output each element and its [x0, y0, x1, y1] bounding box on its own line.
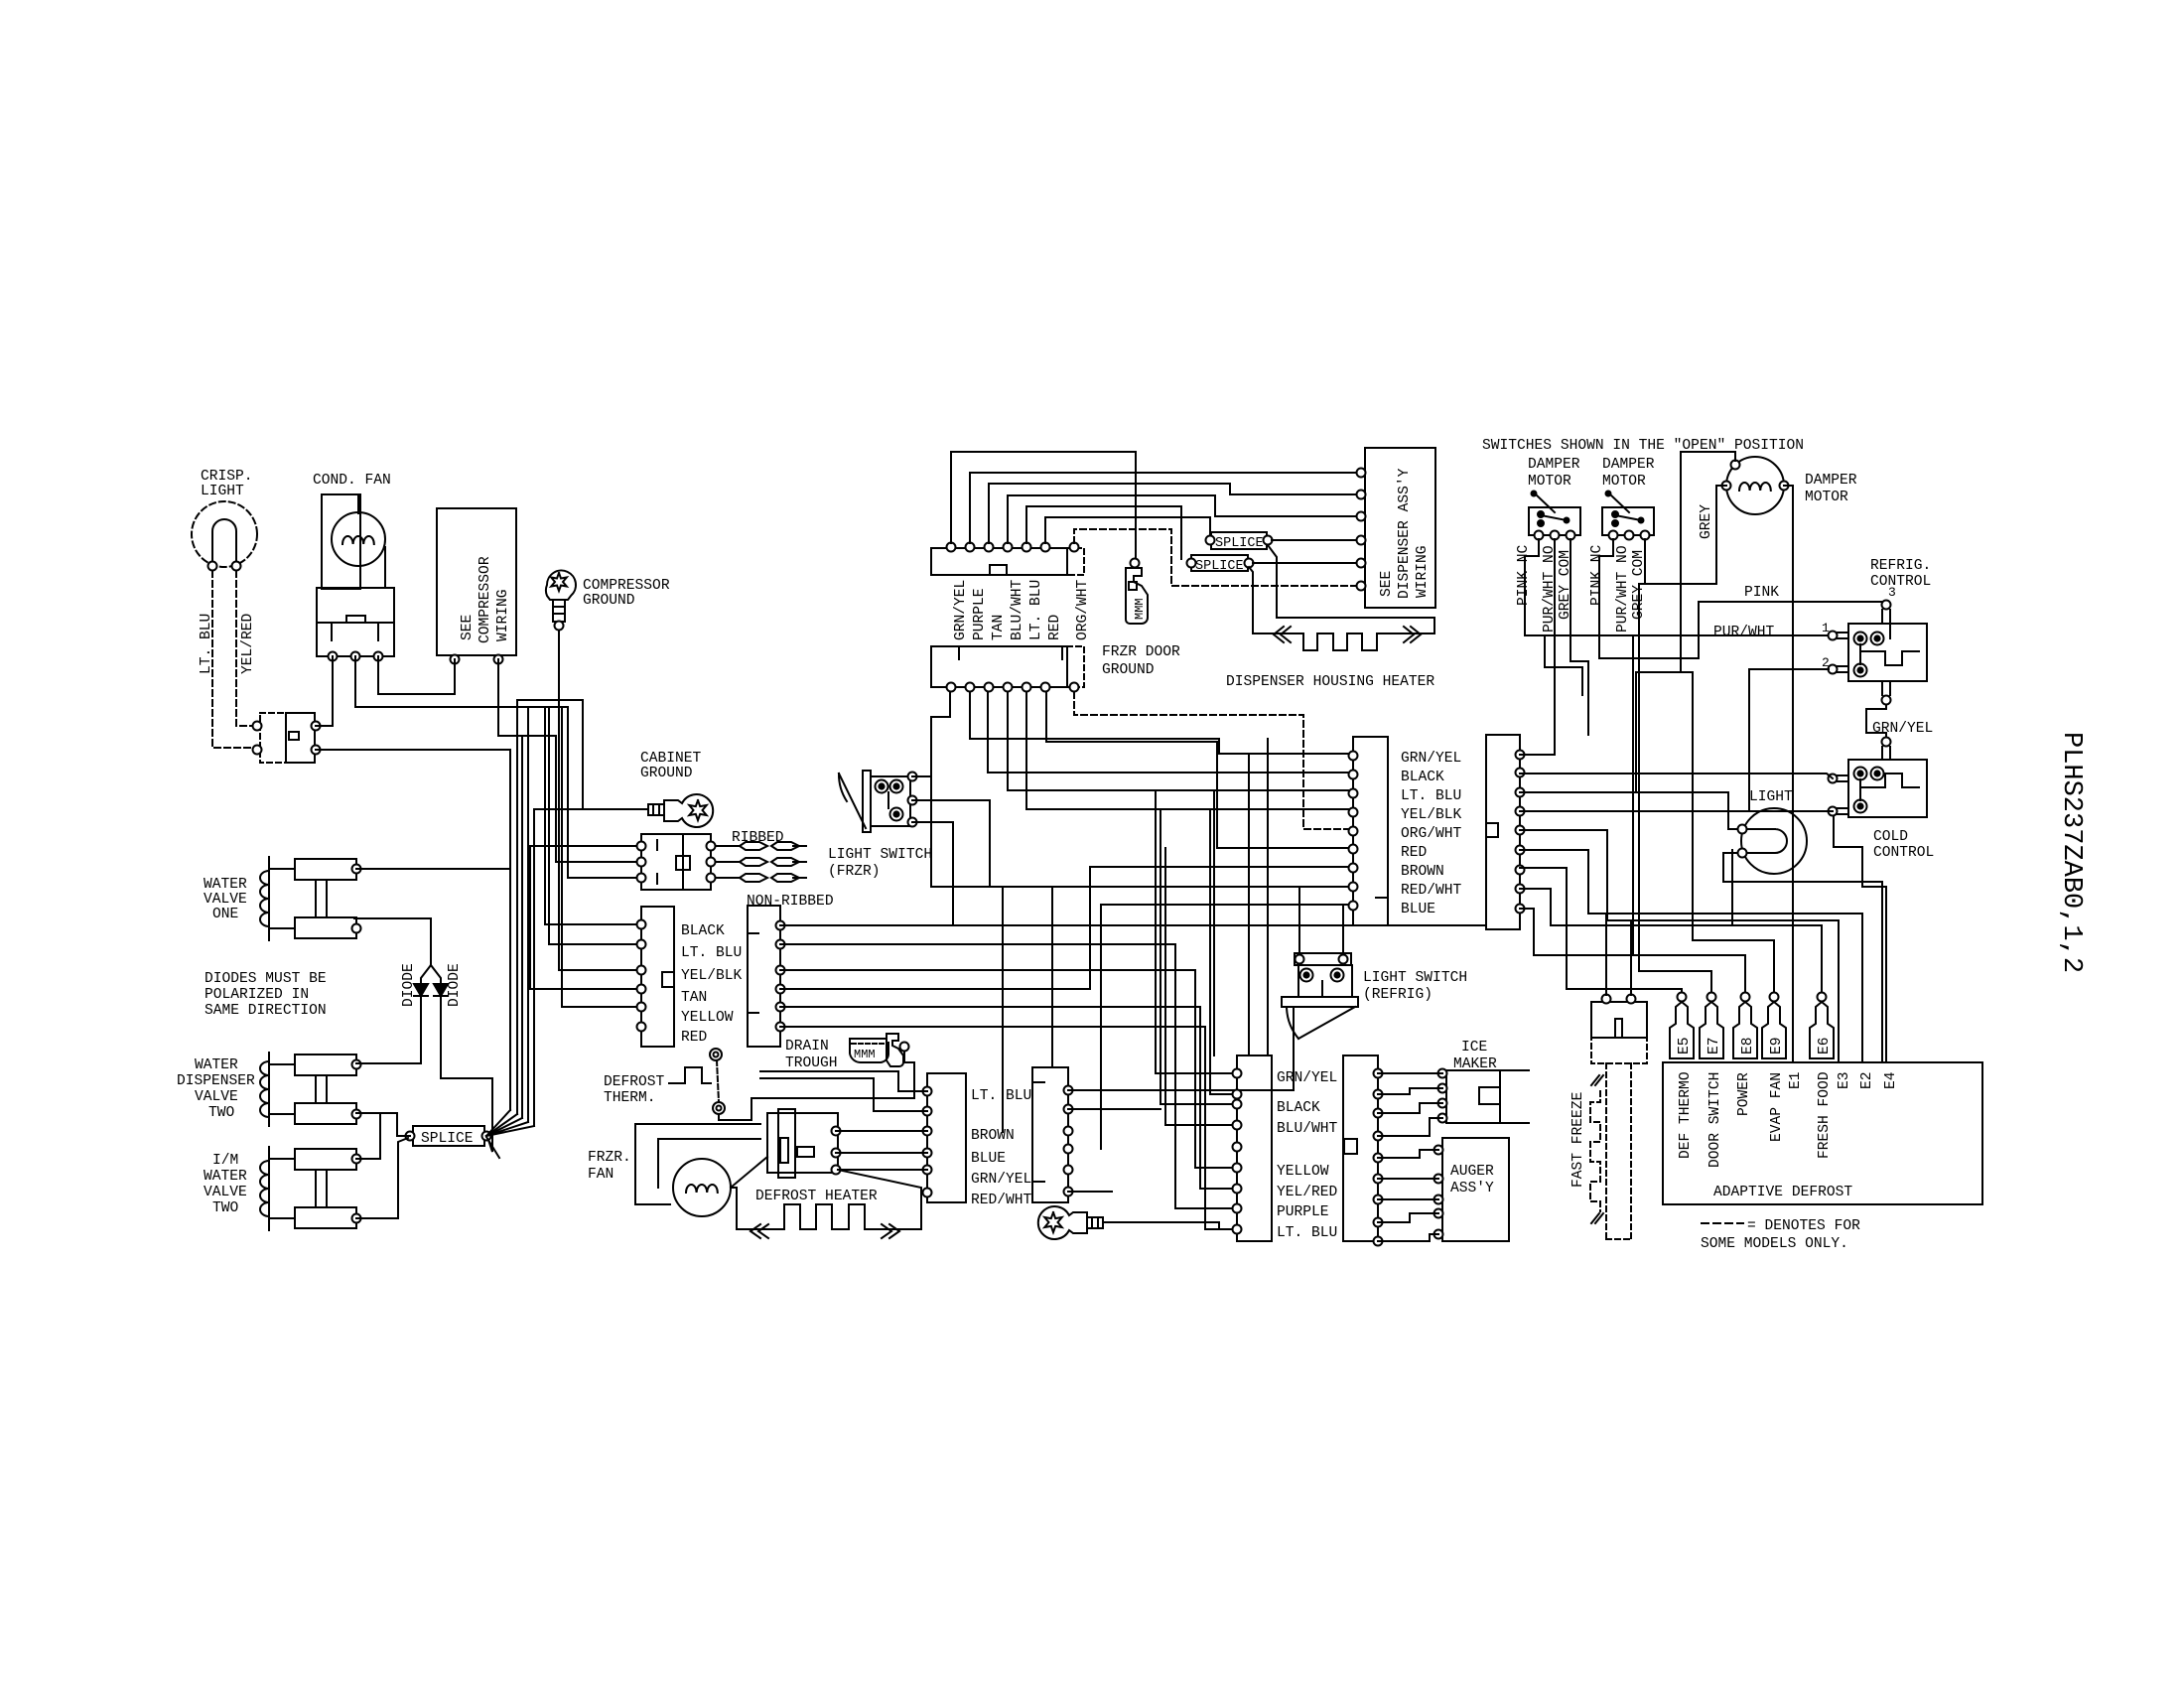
svg-text:FRESH FOOD: FRESH FOOD	[1817, 1071, 1833, 1159]
svg-text:PUR/WHT: PUR/WHT	[1713, 625, 1775, 640]
svg-text:SAME DIRECTION: SAME DIRECTION	[205, 1003, 327, 1019]
svg-text:LT. BLU: LT. BLU	[1277, 1225, 1337, 1241]
wire J1 pin5 run	[780, 1006, 1200, 1008]
fast freeze dashed element	[1590, 1091, 1600, 1211]
wire cabinet ground riser	[559, 700, 583, 809]
svg-text:VALVE: VALVE	[204, 1185, 247, 1200]
svg-text:MMM: MMM	[1133, 598, 1147, 620]
svg-text:MOTOR: MOTOR	[1528, 474, 1571, 490]
wire element to cartridge	[838, 1170, 921, 1204]
svg-text:WATER: WATER	[204, 1169, 247, 1185]
wire J5 pin7 to E5	[1520, 868, 1682, 997]
svg-text:CRISP.: CRISP.	[201, 469, 253, 485]
svg-text:SPLICE: SPLICE	[1215, 536, 1264, 551]
wire fast freeze dashed legs	[1605, 1063, 1607, 1239]
svg-text:RED/WHT: RED/WHT	[1401, 883, 1462, 899]
wire damper1 NC down	[1525, 539, 1624, 635]
connector J3 lower strip	[931, 646, 1067, 687]
ground lug bottom	[1038, 1206, 1087, 1239]
wire J3 pin5 to splice S2	[1026, 506, 1181, 559]
wire J5 pin6 to adaptive defrost E2	[1520, 850, 1862, 1062]
wire J3 pin6 to J4 RED	[1046, 692, 1349, 848]
wire J6B pin6	[1068, 1191, 1112, 1193]
wire J3 pin4 to dispenser box	[1008, 495, 1357, 543]
connector J1 right half	[748, 906, 780, 1047]
wire J3 pin4 to J4 LT. BLU	[1008, 692, 1349, 790]
wire cartridge pin3 to J6A	[838, 1169, 927, 1171]
svg-text:YEL/RED: YEL/RED	[1277, 1185, 1338, 1200]
svg-text:YEL/RED: YEL/RED	[240, 613, 256, 674]
fan relay / overload protector	[317, 588, 394, 656]
wire J1 pin6 run	[780, 1026, 1205, 1028]
svg-text:RED/WHT: RED/WHT	[971, 1193, 1032, 1208]
wire damper2 NC to PINK riser	[1599, 539, 1699, 658]
wire mesh vertical b	[1160, 809, 1233, 1104]
svg-text:DRAIN: DRAIN	[785, 1039, 829, 1055]
wire J3 pin1 down	[931, 692, 1052, 1067]
svg-text:E5: E5	[1677, 1037, 1693, 1055]
svg-text:LT. BLU: LT. BLU	[1028, 580, 1044, 640]
svg-text:GROUND: GROUND	[1102, 662, 1155, 678]
wire J1 pin1 long run	[780, 924, 1486, 926]
svg-text:E2: E2	[1859, 1071, 1875, 1089]
svg-text:TWO: TWO	[212, 1200, 239, 1216]
spade terminal E6	[1818, 993, 1827, 1002]
svg-text:THERM.: THERM.	[604, 1090, 656, 1106]
wire valve three lower	[356, 1138, 408, 1218]
wire compressor box to trunk	[498, 659, 556, 736]
splice S2	[1191, 555, 1248, 571]
wire damper motor right to E1	[1784, 486, 1793, 1062]
wire dashed ORG/WHT mesh	[1074, 692, 1349, 829]
svg-text:ONE: ONE	[212, 907, 238, 922]
wire J6A pin1 left	[760, 1071, 927, 1091]
svg-text:GRN/YEL: GRN/YEL	[1277, 1070, 1337, 1086]
wire relay terminal 3 to compressor box	[378, 656, 455, 694]
wire light switch frzr pin3	[912, 822, 953, 924]
svg-text:CABINET: CABINET	[640, 751, 702, 767]
svg-text:PUR/WHT NO: PUR/WHT NO	[1615, 545, 1631, 633]
wire J5 pin5 to adaptive defrost E3	[1520, 830, 1839, 1062]
wire J4 BROWN	[780, 867, 1349, 989]
svg-text:SPLICE: SPLICE	[421, 1131, 474, 1147]
wire valve one lower to diodes	[354, 918, 431, 984]
wire mesh vertical f	[1200, 1007, 1233, 1189]
splice S1	[1211, 532, 1267, 549]
svg-text:E4: E4	[1883, 1071, 1899, 1089]
wire trunk to connector J1	[545, 923, 641, 925]
svg-text:DEFROST HEATER: DEFROST HEATER	[755, 1189, 878, 1204]
svg-text:BLACK: BLACK	[1277, 1100, 1320, 1116]
svg-text:E3: E3	[1837, 1071, 1852, 1089]
wire J5 pin2 to cold control pin1	[1520, 774, 1833, 778]
wire J7B to auger 5	[1378, 1234, 1438, 1241]
connector J3 upper strip	[931, 548, 1067, 575]
svg-text:MOTOR: MOTOR	[1602, 474, 1646, 490]
svg-text:BROWN: BROWN	[971, 1128, 1015, 1144]
svg-text:GRN/YEL: GRN/YEL	[953, 580, 969, 640]
wire refrig control pin2 down	[1749, 669, 1829, 811]
wire J3 pin3 to dispenser box	[989, 484, 1357, 543]
connector J1 left half	[641, 907, 674, 1047]
svg-text:ADAPTIVE DEFROST: ADAPTIVE DEFROST	[1713, 1185, 1852, 1200]
wire light switch frzr pin1	[912, 775, 931, 777]
wire J1 pin2 run	[780, 943, 1175, 945]
wire defrost thermostat run	[719, 1098, 914, 1120]
wire damper2 COM down	[1644, 539, 1646, 584]
svg-text:LT. BLU: LT. BLU	[199, 614, 214, 674]
svg-text:GRN/YEL: GRN/YEL	[971, 1172, 1031, 1188]
svg-text:3: 3	[1888, 585, 1896, 600]
svg-text:E7: E7	[1706, 1037, 1722, 1055]
svg-text:GREY: GREY	[1699, 504, 1714, 539]
spade terminal E8	[1741, 993, 1750, 1002]
wire J5 pin8 to E6	[1520, 889, 1822, 997]
svg-text:FAST FREEZE: FAST FREEZE	[1570, 1092, 1586, 1188]
svg-text:POLARIZED IN: POLARIZED IN	[205, 987, 309, 1003]
wire GRN/YEL jog	[1866, 705, 1886, 737]
wire compressor ground to trunk	[517, 699, 559, 701]
connector J4 middle	[1353, 737, 1388, 925]
wire relay terminal 2	[355, 656, 568, 707]
connector J7A	[1237, 1055, 1272, 1241]
wire diode D2 down to splice	[441, 996, 492, 1152]
wire mesh vertical e	[1195, 970, 1233, 1168]
svg-text:CONTROL: CONTROL	[1870, 574, 1931, 590]
svg-text:LIGHT: LIGHT	[201, 484, 244, 499]
svg-text:YELLOW: YELLOW	[1277, 1164, 1329, 1180]
wire J1 pin3 run	[780, 969, 1195, 971]
svg-text:PINK NC: PINK NC	[1589, 544, 1605, 606]
splice S3	[413, 1126, 484, 1146]
wire loop below damper1	[1545, 635, 1582, 695]
wire mesh vertical d	[1175, 944, 1233, 1208]
wire J5 pin4 to cold control pin2	[1520, 810, 1833, 812]
svg-text:LIGHT: LIGHT	[1749, 789, 1793, 805]
wire J7B to ice maker 1	[1378, 1072, 1442, 1074]
svg-text:WIRING: WIRING	[495, 589, 511, 641]
dispenser housing heater	[1268, 545, 1434, 633]
svg-text:YEL/BLK: YEL/BLK	[681, 968, 743, 984]
svg-text:= DENOTES FOR: = DENOTES FOR	[1747, 1218, 1860, 1234]
svg-text:COMPRESSOR: COMPRESSOR	[478, 556, 493, 643]
svg-text:E6: E6	[1817, 1037, 1833, 1055]
svg-text:DISPENSER HOUSING HEATER: DISPENSER HOUSING HEATER	[1226, 674, 1434, 690]
svg-text:RED: RED	[681, 1030, 708, 1046]
wire J3 pin3 to J4 BLACK	[988, 692, 1349, 773]
svg-text:ICE: ICE	[1461, 1040, 1487, 1055]
svg-text:FRZR.: FRZR.	[588, 1150, 631, 1166]
wire J4 RED/WHT	[1003, 887, 1349, 1132]
svg-text:LT. BLU: LT. BLU	[971, 1088, 1031, 1104]
svg-text:POWER: POWER	[1736, 1072, 1752, 1116]
svg-text:PURPLE: PURPLE	[1277, 1204, 1329, 1220]
svg-text:DAMPER: DAMPER	[1528, 457, 1580, 473]
svg-text:RED: RED	[1047, 614, 1063, 640]
wire E9 riser	[1693, 672, 1774, 997]
wire diode D1 to valve two	[356, 996, 421, 1063]
wire fast freeze pin2 up	[1630, 920, 1632, 995]
svg-text:VALVE: VALVE	[195, 1089, 238, 1105]
wire J5 pin1 to damper1 NO	[1520, 539, 1555, 755]
wire mesh vertical a	[1156, 790, 1233, 1073]
wire LT. BLU dashed	[212, 571, 257, 748]
wire J7B to ice maker 2	[1378, 1088, 1442, 1094]
wire cartridge pin2 to J6A	[836, 1152, 927, 1154]
wire E6 riser	[1731, 850, 1733, 925]
svg-text:COLD: COLD	[1873, 829, 1908, 845]
svg-text:RED: RED	[1401, 845, 1428, 861]
wire drain trough down	[904, 1052, 914, 1098]
wire light switch refrig pin1 up	[1298, 887, 1300, 954]
wire mesh vertical i	[1248, 754, 1250, 1055]
svg-text:WATER: WATER	[195, 1057, 238, 1073]
wire J7B to ice maker 3	[1378, 1103, 1442, 1113]
wire light switch refrig pin2 up	[1342, 905, 1344, 954]
svg-text:LIGHT SWITCH: LIGHT SWITCH	[1363, 970, 1467, 986]
wire J3 pin2 to J4 GRN/YEL	[970, 692, 1349, 754]
svg-text:DOOR SWITCH: DOOR SWITCH	[1707, 1072, 1723, 1168]
defrost timer relay dashed	[260, 713, 286, 763]
svg-text:BLACK: BLACK	[1401, 770, 1444, 785]
wire J5 pin3 to light and E9 riser	[1520, 792, 1737, 829]
svg-text:DISPENSER ASS'Y: DISPENSER ASS'Y	[1397, 468, 1413, 599]
svg-text:FRZR DOOR: FRZR DOOR	[1102, 644, 1180, 660]
connector J5 right	[1486, 735, 1520, 929]
svg-text:YEL/BLK: YEL/BLK	[1401, 807, 1462, 823]
wire J4 BLUE	[1101, 905, 1349, 1149]
spade terminal E5	[1678, 993, 1687, 1002]
wire mesh vertical g	[1205, 1027, 1233, 1229]
svg-text:TWO: TWO	[208, 1105, 235, 1121]
svg-text:SPLICE: SPLICE	[1195, 559, 1244, 574]
svg-text:SEE: SEE	[460, 615, 476, 640]
wire J6A pin2 left	[760, 1078, 927, 1111]
svg-text:DIODE: DIODE	[447, 963, 463, 1007]
svg-text:(REFRIG): (REFRIG)	[1363, 987, 1433, 1003]
spade terminal E7	[1707, 993, 1716, 1002]
connector ribbed	[641, 834, 683, 890]
wire relay terminal 1	[316, 656, 333, 726]
wire mesh vertical j	[1267, 739, 1269, 1055]
svg-text:E1: E1	[1788, 1071, 1804, 1089]
svg-text:ASS'Y: ASS'Y	[1450, 1181, 1494, 1196]
svg-text:YELLOW: YELLOW	[681, 1010, 734, 1026]
svg-text:MMM: MMM	[854, 1048, 876, 1061]
svg-text:WATER: WATER	[204, 877, 247, 893]
svg-text:GRN/YEL: GRN/YEL	[1872, 721, 1933, 737]
connector J6B	[1032, 1067, 1068, 1202]
svg-text:TAN: TAN	[681, 990, 707, 1006]
svg-text:SOME MODELS ONLY.: SOME MODELS ONLY.	[1701, 1236, 1848, 1252]
wire cartridge pin1 to J6A	[836, 1130, 927, 1132]
connector J7B	[1343, 1055, 1378, 1241]
wire splice S2 to dispenser box	[1253, 562, 1357, 564]
svg-text:BLACK: BLACK	[681, 923, 725, 939]
svg-text:GRN/YEL: GRN/YEL	[1401, 751, 1461, 767]
wire J7B to auger 3	[1378, 1198, 1438, 1200]
wire valve one upper	[356, 868, 510, 870]
wire J6B pin2 join	[1068, 1108, 1160, 1110]
wire YEL/RED dashed	[236, 571, 257, 726]
wire damper1 COM down	[1570, 539, 1588, 735]
frzr door ground clip	[1131, 559, 1140, 568]
wire PUR/WHT to refrig control pin1	[1624, 634, 1833, 636]
svg-text:SWITCHES SHOWN IN THE "OPEN" P: SWITCHES SHOWN IN THE "OPEN" POSITION	[1482, 438, 1804, 454]
note DENOTES FOR SOME MODELS ONLY	[1702, 1222, 1743, 1224]
svg-text:LIGHT SWITCH: LIGHT SWITCH	[828, 847, 932, 863]
svg-text:GROUND: GROUND	[640, 766, 693, 781]
wire fast freeze pin1 up	[1605, 914, 1607, 995]
compressor ground lug	[546, 571, 576, 600]
wire dashed ORG/WHT to dispenser box	[1074, 529, 1357, 586]
wire E7 riser to damper2 COM	[1639, 584, 1711, 997]
wire J7B to auger 2	[1378, 1178, 1438, 1180]
adaptive defrost board	[1663, 1062, 1982, 1204]
svg-text:PLHS237ZAB0,1,2: PLHS237ZAB0,1,2	[2056, 732, 2086, 973]
wire splice fan	[486, 1110, 510, 1136]
wire mesh vertical h	[1213, 790, 1215, 1055]
svg-text:PURPLE: PURPLE	[972, 588, 988, 640]
wire J7B to auger 1	[1378, 1150, 1438, 1158]
spade terminal E9	[1770, 993, 1779, 1002]
svg-text:BLUE: BLUE	[971, 1151, 1006, 1167]
wire J6B pin1 up	[1068, 1007, 1294, 1090]
svg-text:TROUGH: TROUGH	[785, 1055, 838, 1071]
svg-text:BLU/WHT: BLU/WHT	[1010, 579, 1025, 640]
svg-text:DAMPER: DAMPER	[1602, 457, 1655, 473]
svg-text:DEFROST: DEFROST	[604, 1074, 665, 1090]
wire PINK to refrig control pin3	[1699, 602, 1884, 605]
svg-text:PINK: PINK	[1744, 585, 1779, 601]
wire J3 pin6 to splice S1	[1045, 517, 1210, 543]
svg-text:TAN: TAN	[991, 615, 1007, 640]
wire light switch frzr pin2	[912, 800, 990, 887]
svg-text:BLUE: BLUE	[1401, 902, 1435, 917]
svg-text:REFRIG.: REFRIG.	[1870, 558, 1931, 574]
svg-text:NON-RIBBED: NON-RIBBED	[747, 894, 834, 910]
svg-text:SEE: SEE	[1379, 571, 1395, 597]
fast freeze connector	[1591, 1002, 1647, 1038]
defrost heater element	[737, 1204, 921, 1229]
svg-text:E9: E9	[1769, 1037, 1785, 1055]
connector J6A	[927, 1073, 966, 1202]
svg-text:BROWN: BROWN	[1401, 864, 1444, 880]
wire mesh vertical c	[1165, 848, 1233, 1125]
wire element to fan	[731, 1188, 737, 1204]
cold control	[1848, 760, 1927, 817]
wire trunk verticals	[509, 750, 511, 1110]
svg-text:EVAP FAN: EVAP FAN	[1769, 1072, 1785, 1142]
svg-text:VALVE: VALVE	[204, 892, 247, 908]
svg-text:E8: E8	[1740, 1037, 1756, 1055]
svg-text:GROUND: GROUND	[583, 593, 635, 609]
svg-text:COMPRESSOR: COMPRESSOR	[583, 578, 670, 594]
wire cold control pin2 down to E4	[1834, 816, 1886, 1062]
wire damper motor top terminal	[1681, 452, 1735, 672]
wire valve two lower to splice	[356, 1113, 410, 1136]
wire J7B to auger 4	[1378, 1213, 1438, 1222]
svg-text:CONTROL: CONTROL	[1873, 845, 1934, 861]
wire J7B to ice maker 4	[1378, 1118, 1442, 1136]
svg-text:COND. FAN: COND. FAN	[313, 473, 391, 489]
wire valve three upper	[356, 1113, 380, 1159]
svg-text:MOTOR: MOTOR	[1805, 490, 1848, 505]
wire splice S1 to dispenser box	[1272, 539, 1357, 541]
wire damper motor grey	[1645, 486, 1726, 584]
svg-text:AUGER: AUGER	[1450, 1164, 1494, 1180]
wire light bulb bottom to adaptive defrost	[1723, 853, 1882, 1062]
svg-text:ORG/WHT: ORG/WHT	[1075, 579, 1091, 640]
wire J3 pin2 to dispenser box	[970, 473, 1357, 543]
svg-text:FAN: FAN	[588, 1167, 614, 1183]
svg-text:DISPENSER: DISPENSER	[177, 1073, 255, 1089]
svg-text:DIODES MUST BE: DIODES MUST BE	[205, 971, 327, 987]
svg-text:I/M: I/M	[212, 1153, 238, 1169]
wire J3 pin5 to J4 YEL/BLK	[1026, 692, 1349, 809]
wire J3 pin1 to frzr door ground	[951, 452, 1136, 559]
svg-text:LT. BLU: LT. BLU	[1401, 788, 1461, 804]
wire defrost timer to trunk	[316, 749, 510, 751]
defrost heater cartridge	[767, 1113, 838, 1173]
svg-text:BLU/WHT: BLU/WHT	[1277, 1121, 1338, 1137]
svg-text:(FRZR): (FRZR)	[828, 864, 881, 880]
wire riser x1645	[1632, 635, 1634, 955]
box SEE COMPRESSOR WIRING	[437, 508, 516, 655]
svg-text:DAMPER: DAMPER	[1805, 473, 1857, 489]
svg-text:WIRING: WIRING	[1415, 545, 1431, 598]
wire mesh vertical k	[1210, 809, 1233, 1094]
box SEE DISPENSER ASS'Y WIRING	[1365, 448, 1435, 608]
svg-text:DEF THERMO: DEF THERMO	[1678, 1071, 1694, 1159]
svg-text:LT. BLU: LT. BLU	[681, 945, 742, 961]
wire J5 pin9 to E8	[1520, 909, 1745, 997]
svg-text:ORG/WHT: ORG/WHT	[1401, 826, 1462, 842]
wire ground lug to J7A	[1103, 1222, 1233, 1229]
